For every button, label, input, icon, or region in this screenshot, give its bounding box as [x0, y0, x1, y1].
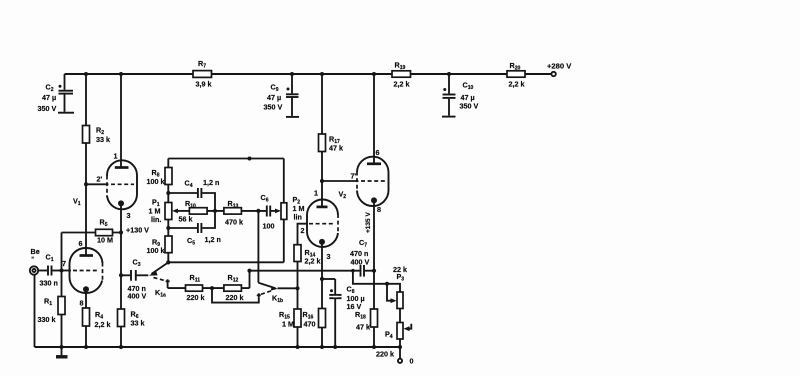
svg-text:47 k: 47 k [329, 144, 343, 153]
svg-text:lin: lin [294, 213, 302, 222]
svg-text:350 V: 350 V [264, 103, 283, 112]
svg-text:6: 6 [376, 148, 380, 157]
svg-text:400 V: 400 V [128, 292, 147, 301]
svg-text:33 k: 33 k [131, 319, 145, 328]
svg-text:220 k: 220 k [187, 293, 205, 302]
svg-text:1,2 n: 1,2 n [203, 178, 219, 187]
svg-text:470: 470 [304, 320, 316, 329]
svg-text:2': 2' [97, 175, 103, 184]
svg-text:47 µ: 47 µ [267, 93, 281, 102]
svg-text:+280 V: +280 V [547, 62, 572, 71]
svg-text:1 M: 1 M [282, 320, 294, 329]
svg-text:8: 8 [377, 205, 381, 214]
svg-text:lin.: lin. [151, 215, 161, 224]
svg-text:6: 6 [79, 239, 83, 248]
svg-text:3: 3 [327, 252, 331, 261]
svg-text:2,2 k: 2,2 k [509, 80, 525, 89]
svg-text:2,2 k: 2,2 k [305, 257, 321, 266]
svg-text:100 k: 100 k [147, 246, 165, 255]
svg-text:100: 100 [263, 222, 275, 231]
svg-text:+135 V: +135 V [365, 212, 372, 233]
svg-text:10 M: 10 M [97, 236, 113, 245]
svg-text:350 V: 350 V [38, 104, 57, 113]
svg-text:470 k: 470 k [225, 218, 243, 227]
svg-text:100 k: 100 k [147, 177, 165, 186]
svg-text:330 n: 330 n [40, 279, 58, 288]
svg-text:2,2 k: 2,2 k [95, 320, 111, 329]
svg-text:1,2 n: 1,2 n [205, 235, 221, 244]
svg-text:330 k: 330 k [38, 315, 56, 324]
svg-text:3,9 k: 3,9 k [196, 80, 212, 89]
svg-text:3: 3 [127, 211, 131, 220]
svg-text:56 k: 56 k [179, 215, 193, 224]
svg-text:350 V: 350 V [460, 102, 479, 111]
svg-text:0: 0 [410, 357, 414, 366]
svg-text:1: 1 [114, 152, 118, 161]
svg-text:2,2 k: 2,2 k [394, 80, 410, 89]
svg-text:+130 V: +130 V [126, 226, 149, 235]
svg-text:1: 1 [314, 189, 318, 198]
svg-text:2: 2 [301, 226, 305, 235]
svg-text:7': 7' [351, 172, 357, 181]
svg-text:220 k: 220 k [226, 293, 244, 302]
svg-text:7: 7 [62, 259, 66, 268]
svg-text:47 µ: 47 µ [42, 93, 56, 102]
svg-text:33 k: 33 k [96, 135, 110, 144]
svg-text:220 k: 220 k [376, 350, 394, 359]
svg-text:47 µ: 47 µ [461, 93, 475, 102]
svg-text:8: 8 [80, 299, 84, 308]
svg-text:47 k: 47 k [356, 323, 370, 332]
svg-text:400 V: 400 V [351, 258, 370, 267]
